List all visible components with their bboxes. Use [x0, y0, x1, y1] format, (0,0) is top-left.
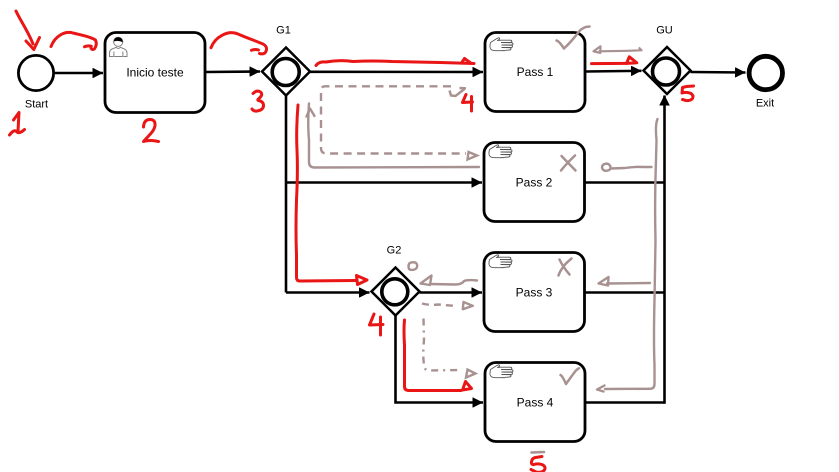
- gray left arrow G2 to Pass 3: [421, 276, 478, 286]
- svg-text:G1: G1: [276, 25, 291, 37]
- wire collector up to GU: [663, 96, 666, 404]
- gateway G2: [372, 245, 420, 316]
- hand icon of Pass 1: [490, 38, 513, 51]
- gray check over Pass 4: [561, 368, 580, 384]
- end event Exit: [749, 56, 782, 109]
- svg-text:Pass 2: Pass 2: [516, 176, 553, 190]
- red digit 5 near GU: [682, 86, 694, 101]
- gateway GU: [644, 25, 691, 95]
- wire Start to Inicio teste: [55, 72, 104, 75]
- gray left arrow near GU: [594, 46, 642, 53]
- svg-text:G2: G2: [387, 245, 402, 257]
- gray long right-side line: [597, 119, 658, 392]
- task Pass 3: [484, 253, 585, 332]
- gray X over Pass 3: [559, 259, 572, 276]
- red digit 4 under G2: [370, 314, 384, 335]
- wire G2 to Pass 3: [420, 291, 483, 294]
- hand icon of Pass 3: [489, 255, 512, 268]
- gray dashed arrow G1 top loop: [321, 86, 477, 159]
- red line G2 to Pass 4: [404, 320, 472, 391]
- red annotation arc Start to task: [51, 32, 96, 49]
- red digit 1 under Start: [10, 113, 25, 136]
- red arrow over Pass1-GU: [592, 57, 637, 64]
- svg-text:Pass 1: Pass 1: [517, 65, 554, 79]
- red annotation arrow 1 (top-left curve): [16, 11, 40, 50]
- red digit 4 near Pass 1: [463, 95, 473, 112]
- gray solid line G1 to Pass 2: [307, 104, 480, 168]
- red digit 3 left of G1: [252, 91, 264, 111]
- svg-text:Pass 3: Pass 3: [516, 286, 553, 300]
- svg-text:Pass 4: Pass 4: [517, 396, 554, 410]
- red digit 5 under Pass 4: [531, 457, 545, 472]
- gray check over Pass 1: [557, 27, 590, 49]
- hand icon of Pass 2: [489, 145, 512, 158]
- svg-text:Start: Start: [25, 99, 48, 111]
- svg-text:GU: GU: [656, 25, 673, 37]
- wire G1 to Pass 1: [310, 71, 483, 74]
- gray blob near G2: [409, 262, 418, 270]
- gray dash-dot G2 to Pass 4: [423, 319, 475, 378]
- wire G1 down trunk: [285, 96, 288, 293]
- wire G1 to G2: [286, 291, 370, 294]
- wire Pass 2 out: [585, 181, 665, 184]
- red wavy line over G1-Pass1 arrow: [316, 59, 474, 66]
- red annotation arc task to G1: [211, 33, 267, 54]
- task Pass 2: [484, 143, 585, 222]
- wire Pass 1 to GU: [586, 70, 642, 73]
- gray bar above red 5: [532, 451, 545, 454]
- svg-text:Exit: Exit: [756, 98, 774, 110]
- wire G2 to Pass 4: [396, 316, 484, 403]
- wire Inicio teste to G1: [205, 70, 260, 73]
- wire GU to Exit: [691, 71, 746, 74]
- red long vertical line G1 to G2: [296, 105, 367, 285]
- task Pass 4: [485, 363, 585, 442]
- red digit 2 under Inicio teste: [144, 120, 159, 142]
- svg-text:Inicio teste: Inicio teste: [126, 66, 184, 80]
- gray dashed small arrow under G2-Pass3: [422, 302, 473, 309]
- wire Pass 4 out: [586, 401, 665, 404]
- user icon of Inicio teste: [110, 37, 128, 56]
- gray loop arrow right of Pass 2: [602, 164, 651, 171]
- wire Pass 3 out: [585, 291, 665, 294]
- gateway G1: [262, 25, 310, 96]
- start event Start: [18, 55, 53, 110]
- wire G1 to Pass 2: [286, 181, 482, 184]
- gray X over Pass 2: [561, 156, 576, 171]
- task Inicio teste: [105, 33, 205, 113]
- task Pass 1: [485, 33, 585, 112]
- gray left arrow right of Pass 3: [599, 277, 651, 286]
- hand icon of Pass 4: [490, 365, 513, 378]
